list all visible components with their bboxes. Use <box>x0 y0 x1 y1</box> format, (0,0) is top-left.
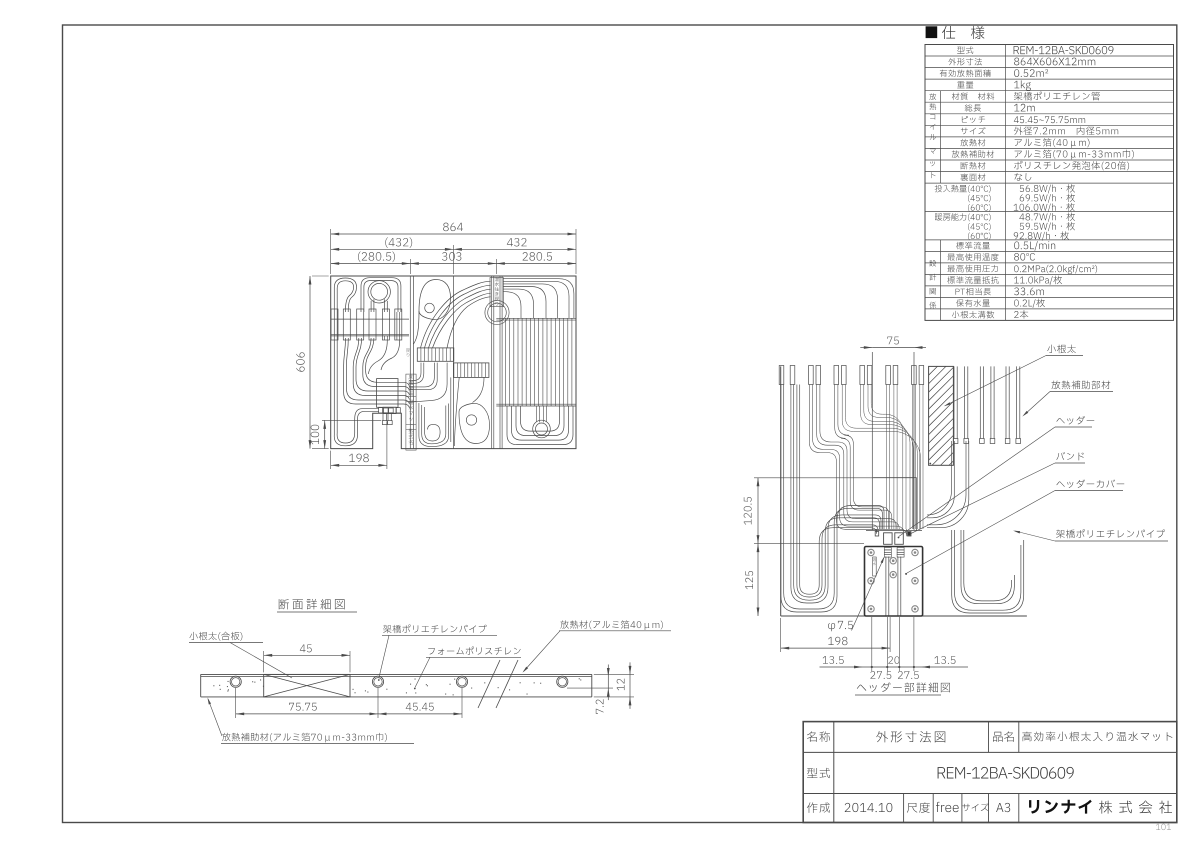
plan dim extension lines top <box>330 229 332 274</box>
header view bottom-left pipe loops <box>781 385 884 613</box>
dim 303 <box>410 263 496 265</box>
spec section header black square <box>926 26 938 38</box>
dim 432 <box>453 248 576 250</box>
section label フォームポリスチレン <box>428 647 520 655</box>
dim 198 <box>330 451 332 469</box>
header view right horseshoe pipes <box>927 441 952 515</box>
plan tiny label mid strip <box>406 349 410 357</box>
header dim 75 <box>872 347 914 349</box>
header dim 125 <box>757 544 759 616</box>
plan left panel pipe runs lower <box>334 312 379 446</box>
plan tiny joint labels <box>406 374 416 450</box>
header view joist slot <box>871 352 873 530</box>
header view bottom-right pipe loops <box>952 530 1024 613</box>
spec table group labels <box>929 93 936 140</box>
plan right panel top bend pipes <box>503 279 574 319</box>
plan view right joint strip <box>491 276 493 449</box>
label 放熱補助部材 <box>1052 381 1111 390</box>
header view middle S pipes <box>809 385 906 537</box>
plan middle panel ladder 1 <box>417 348 454 361</box>
plan middle panel top blob <box>419 280 451 320</box>
spec table grid <box>925 45 1174 321</box>
dim 864 <box>331 233 576 235</box>
plan middle panel bottom blobs <box>419 403 449 447</box>
plan left panel pipe runs upper <box>344 338 410 408</box>
header corrugated connectors <box>884 548 891 550</box>
plan left panel arch loop A <box>334 278 356 312</box>
dim 280.5 <box>496 263 576 265</box>
header view right pipe stubs <box>953 366 955 438</box>
header caption <box>857 682 950 692</box>
section dim 12 <box>594 673 634 675</box>
plan left panel joist outline <box>377 379 398 408</box>
section label 小根太(合板) <box>189 632 242 641</box>
title block texts <box>807 731 830 742</box>
header dim phi7.5 <box>828 621 853 631</box>
header dim 198 <box>780 618 782 652</box>
plan view left panel joint lines <box>409 276 411 449</box>
plan middle panel ladder 2 <box>454 363 489 378</box>
spec table values <box>1014 46 1114 54</box>
spec section header text 仕様 <box>942 26 984 39</box>
plan left panel arch loop B <box>361 278 401 312</box>
title block grid <box>803 722 1177 823</box>
header exit pipes <box>885 557 887 617</box>
header bottom dims <box>871 617 873 671</box>
plan header fittings <box>379 408 383 413</box>
header cover tiny label <box>873 557 877 576</box>
plan view center joint line <box>452 276 454 449</box>
section dim 45 <box>263 651 265 672</box>
header blocks <box>866 529 922 531</box>
section label 放熱材 <box>560 620 663 630</box>
plan middle panel sweep pipes <box>421 281 491 348</box>
sheet number 101 <box>1156 824 1171 830</box>
section dim 45.45 <box>461 688 463 718</box>
plan header exit stubs <box>382 414 384 421</box>
dim (432) <box>331 248 454 250</box>
plan right panel bottom loops <box>507 406 573 445</box>
section pipe circles <box>230 676 241 687</box>
header view left pipe stubs <box>779 366 784 385</box>
plan right strip bulb loop <box>485 300 509 324</box>
header view mat edges <box>780 366 782 616</box>
section dim 75.75 <box>235 688 237 718</box>
plan view mat outline <box>331 276 576 449</box>
section joist x-box <box>264 674 350 697</box>
section break lines <box>478 660 500 708</box>
plan left panel slat band <box>331 309 338 340</box>
header dim 120.5 <box>754 477 915 479</box>
plan middle panel lower sweeps <box>409 363 421 381</box>
section strip outline <box>201 673 592 675</box>
spec table row labels <box>957 46 973 53</box>
header view cluster6 pipes <box>911 385 913 530</box>
section label 放熱補助材 <box>222 733 387 743</box>
section stipple dots <box>454 679 455 680</box>
header cover box with bolts <box>865 547 923 617</box>
dim 100 <box>322 419 381 421</box>
section title 断面詳細図 <box>279 599 345 610</box>
section label 架橋ポリエチレンパイプ <box>383 625 486 634</box>
label 小根太 <box>1047 345 1076 354</box>
label ヘッダー <box>1056 416 1094 425</box>
section dim 7.2 <box>567 687 613 689</box>
label バンド <box>1056 452 1083 460</box>
plan tiny label box right strip <box>490 278 503 307</box>
dim (280.5) <box>331 263 411 265</box>
dim 606 <box>312 275 329 277</box>
label ヘッダーカバー <box>1056 479 1124 488</box>
plan right panel comb band <box>496 317 576 319</box>
label 架橋ポリエチレンパイプ <box>1056 529 1165 538</box>
